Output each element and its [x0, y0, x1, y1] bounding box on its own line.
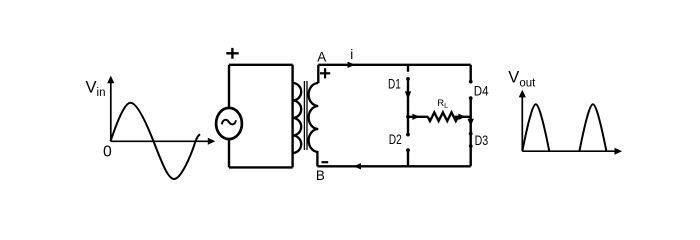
svg-text:D4: D4 [474, 84, 489, 99]
svg-text:A: A [317, 49, 326, 64]
svg-text:D1: D1 [388, 77, 401, 92]
svg-text:B: B [316, 168, 325, 183]
svg-text:D2: D2 [389, 132, 402, 147]
svg-text:D3: D3 [475, 133, 489, 148]
svg-text:0: 0 [103, 143, 112, 160]
svg-text:i: i [350, 47, 353, 62]
